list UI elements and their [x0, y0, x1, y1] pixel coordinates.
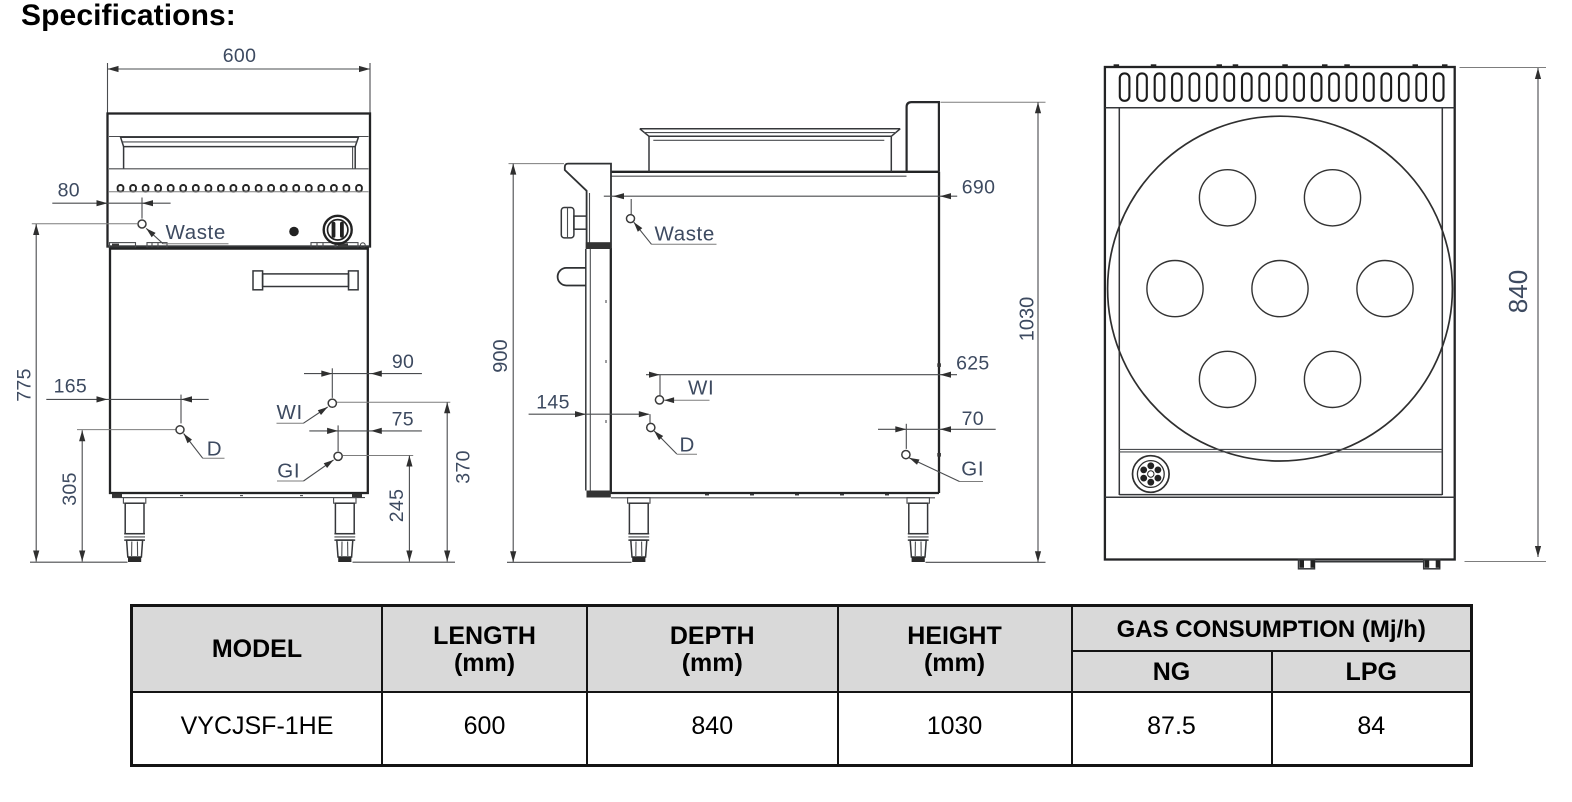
svg-text:WI: WI [277, 401, 303, 424]
rear burner grate strip [1105, 64, 1455, 107]
door handle (side) [558, 268, 586, 286]
svg-text:80: 80 [58, 180, 80, 202]
WI leader + label (side) [664, 377, 714, 404]
hinge detail left [110, 243, 168, 248]
D leader + label (front) [184, 434, 225, 461]
knob on bracket (side) [561, 208, 586, 238]
dimension 80 (waste offset) [52, 180, 170, 207]
D leader + label (side) [654, 431, 697, 457]
dimension 840 (depth, top view) [1460, 68, 1547, 562]
dimension 370 (WI height) [444, 402, 474, 561]
door handle (front) [253, 271, 358, 290]
dimension 625 (WI depth) [646, 353, 990, 378]
vent holes row (front) [109, 185, 369, 192]
control knob (front) [324, 216, 352, 244]
front panel split lines [1119, 449, 1442, 452]
svg-text:Waste: Waste [166, 221, 226, 244]
dimension 1030 (overall height) [941, 102, 1046, 562]
dimension 600 (top width) [108, 45, 371, 113]
svg-text:600: 600 [223, 45, 256, 67]
control panel bracket (side) [565, 164, 611, 248]
front cabinet top section outline [108, 114, 371, 247]
gas inlet GI point (side) [902, 451, 910, 459]
waste drain point (front) [138, 198, 146, 229]
burner hole bottom-left [1199, 351, 1255, 407]
front door outline [110, 249, 368, 493]
dimension 70 (GI depth) [878, 408, 996, 449]
svg-text:D: D [680, 434, 695, 457]
svg-text:D: D [207, 438, 222, 461]
dimension 165 (D offset) [46, 376, 208, 424]
svg-text:165: 165 [54, 376, 87, 398]
dimension 305 (D height) [59, 430, 85, 561]
burner hole top-left [1199, 170, 1255, 226]
burner hole center [1252, 261, 1308, 317]
water inlet WI point (front) [328, 399, 450, 407]
dimension 775 (waste height) [14, 224, 138, 562]
water inlet WI point (side) [655, 375, 663, 404]
waste point (side) [627, 199, 635, 223]
dimension 690 (waste depth) [604, 177, 995, 200]
ground reference line (side) [507, 561, 632, 563]
GI leader + label (side) [909, 458, 984, 482]
WI leader + label (front) [277, 401, 328, 424]
burner hole top-right [1304, 170, 1360, 226]
svg-text:305: 305 [59, 472, 81, 505]
Waste leader + label (front) [146, 221, 228, 244]
edge junction ticks (side) [937, 363, 941, 367]
dimension 900 (front height) [490, 164, 564, 563]
pot rim (side) [640, 129, 900, 172]
ground reference line (front) [30, 561, 128, 563]
front foot (side view) [628, 498, 650, 562]
pot rim (front) [109, 137, 369, 169]
top view outer body [1105, 67, 1455, 560]
burner hole right [1357, 261, 1413, 317]
dimension 245 (GI height) [386, 456, 413, 562]
svg-text:245: 245 [386, 489, 408, 522]
gas inlet GI point (front) [334, 452, 413, 460]
svg-text:900: 900 [490, 339, 512, 372]
svg-text:70: 70 [962, 408, 984, 430]
hinge detail right [311, 243, 365, 248]
inner side rails [1119, 108, 1442, 495]
burner hole bottom-right [1304, 351, 1360, 407]
svg-text:GI: GI [277, 460, 300, 483]
specifications table [130, 604, 1473, 767]
svg-text:75: 75 [392, 409, 414, 431]
dimension 75 (GI offset) [309, 409, 422, 452]
drain point D (side) [647, 423, 655, 431]
lower deck lines [1105, 495, 1455, 498]
door face (side) [586, 242, 611, 497]
rear feet tabs (top view) [1299, 560, 1441, 569]
page title [21, 0, 236, 33]
right foot (front view) [334, 498, 356, 562]
GI leader + label (front) [277, 460, 334, 483]
Waste leader + label (side) [634, 222, 717, 245]
svg-text:1030: 1030 [1017, 297, 1039, 342]
dimension 145 (D depth) [529, 392, 650, 423]
large pot opening circle [1108, 116, 1453, 461]
control panel bottom edge [108, 245, 371, 247]
svg-text:775: 775 [14, 368, 36, 401]
left foot (front view) [123, 498, 145, 562]
svg-text:GI: GI [961, 458, 984, 481]
svg-text:840: 840 [1503, 270, 1533, 313]
svg-text:625: 625 [956, 353, 989, 375]
burner hole left [1147, 261, 1203, 317]
svg-text:370: 370 [453, 450, 475, 483]
rear foot (side view) [907, 498, 929, 562]
svg-text:90: 90 [392, 351, 414, 373]
base strip (front) [112, 494, 365, 498]
pilot burner assembly [1133, 456, 1170, 493]
dimension 90 (WI offset) [304, 351, 422, 398]
flue riser (side) [907, 102, 939, 172]
svg-text:WI: WI [688, 377, 714, 400]
drain point D (front) [77, 426, 184, 434]
svg-text:Waste: Waste [655, 223, 715, 246]
side body outline [590, 172, 939, 498]
svg-text:145: 145 [536, 392, 569, 414]
pilot indicator dot [289, 227, 299, 237]
svg-text:690: 690 [962, 177, 995, 199]
